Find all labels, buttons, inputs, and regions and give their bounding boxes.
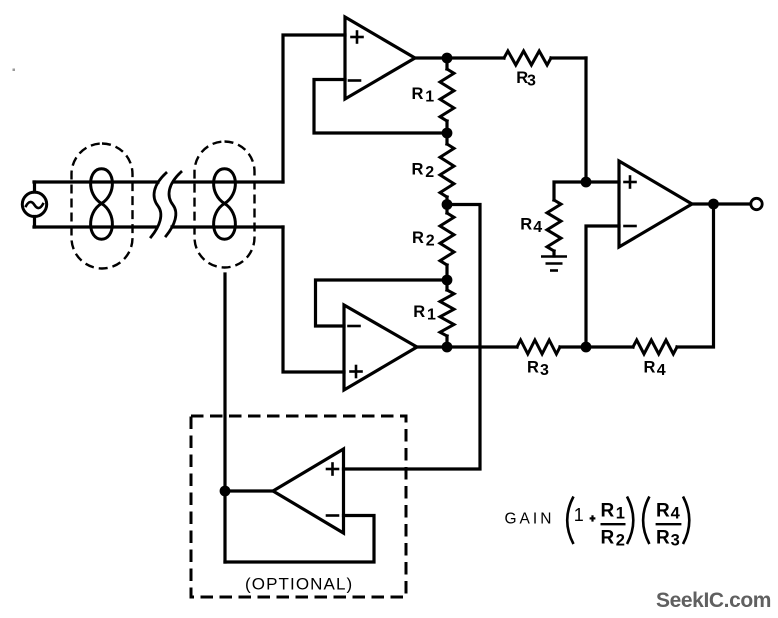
- svg-text:SeekIC.com: SeekIC.com: [656, 589, 771, 612]
- twisted pair loops 1 (figure-8): [91, 169, 113, 239]
- wire top pair left segment: [34, 180, 158, 183]
- svg-text:R: R: [644, 358, 656, 376]
- resistor R3 (top, horizontal): [504, 51, 586, 65]
- svg-text:R: R: [601, 528, 615, 549]
- svg-text:R: R: [656, 501, 670, 522]
- node U1 out: [442, 53, 453, 64]
- svg-text:4: 4: [671, 504, 681, 522]
- cable break squiggle left: [151, 173, 166, 237]
- wire riser to U2 + input: [283, 227, 344, 372]
- ground: [541, 257, 567, 271]
- svg-text:R: R: [412, 229, 424, 247]
- op-amp U1: [345, 17, 415, 99]
- plus sign small: [590, 517, 596, 519]
- scan speck: [13, 69, 16, 72]
- AC source V1: [22, 182, 46, 227]
- resistor R2 (lower, vertical): [440, 205, 454, 281]
- wire bottom pair left segment: [34, 225, 156, 228]
- node R1/R2 upper: [442, 128, 453, 139]
- wire R3 down to U3 + node: [584, 58, 587, 182]
- wire top pair right segment: [174, 180, 283, 183]
- paren 2 close: [683, 497, 689, 545]
- node U3 output: [708, 199, 719, 210]
- wire chain midpoint to buffer riser: [344, 205, 481, 470]
- gain formula: [567, 497, 689, 550]
- wire node to R4: [554, 182, 586, 200]
- svg-text:2: 2: [426, 232, 435, 249]
- wire U3 - input riser: [586, 226, 619, 347]
- paren 2 open: [643, 497, 649, 545]
- wire between R3 and R4 bottom: [560, 345, 633, 348]
- wire U4 feedback: [225, 516, 374, 563]
- resistor R1 (lower, vertical): [440, 280, 454, 347]
- wire U1 feedback: [314, 80, 447, 134]
- paren 1 open: [567, 497, 573, 545]
- svg-text:1: 1: [427, 306, 436, 323]
- svg-text:1: 1: [616, 504, 625, 522]
- wire bottom pair right segment: [172, 225, 283, 228]
- svg-text:2: 2: [425, 164, 434, 181]
- wire U4 output: [225, 489, 273, 492]
- svg-text:4: 4: [657, 362, 666, 379]
- svg-text:R: R: [520, 215, 532, 233]
- svg-text:(OPTIONAL): (OPTIONAL): [245, 575, 353, 594]
- paren 1 close: [627, 497, 633, 545]
- svg-text:R: R: [601, 501, 615, 522]
- resistor R3 (bottom, horizontal): [517, 340, 560, 354]
- twisted pair loops 2 (figure-8): [214, 169, 236, 239]
- svg-text:2: 2: [616, 532, 625, 550]
- cable break squiggle right: [166, 172, 181, 236]
- svg-text:3: 3: [540, 362, 549, 379]
- node dots: [220, 53, 719, 497]
- svg-text:4: 4: [533, 219, 542, 236]
- wire U2 feedback: [316, 280, 448, 326]
- output terminal: [751, 198, 762, 209]
- svg-text:3: 3: [527, 73, 536, 90]
- op-amp U3: [619, 161, 692, 247]
- node chain midpoint: [442, 199, 453, 210]
- svg-text:R: R: [527, 358, 539, 376]
- node U4 output: [220, 486, 231, 497]
- twisted pair shield 1 (dashed stadium): [72, 144, 133, 269]
- svg-text:R: R: [412, 160, 424, 178]
- node U3 + input: [581, 177, 592, 188]
- wire riser to U1 + input: [283, 35, 345, 182]
- twisted pair shield 2 (dashed stadium): [195, 142, 255, 268]
- svg-text:R: R: [412, 85, 424, 103]
- op-amp U4 (optional buffer, points left): [273, 449, 344, 533]
- resistor R2 (upper, vertical): [440, 133, 454, 205]
- wire bottom rail: [415, 345, 517, 348]
- svg-text:R: R: [656, 528, 670, 549]
- wire U1 output to node: [415, 56, 504, 59]
- wire shield to buffer output: [223, 274, 226, 562]
- wire node to U3 + input: [586, 180, 619, 183]
- node U2 out: [442, 342, 453, 353]
- svg-text:1: 1: [425, 88, 434, 105]
- svg-text:GAIN: GAIN: [505, 510, 555, 527]
- svg-text:1: 1: [574, 505, 584, 525]
- resistor R4 (to ground, vertical): [547, 200, 561, 256]
- dashed optional box: [191, 416, 406, 597]
- op-amp U2: [344, 305, 417, 390]
- node R2/R1 lower: [442, 275, 453, 286]
- svg-text:3: 3: [671, 532, 680, 550]
- wire output feedback drop: [677, 204, 714, 347]
- resistor R4 (bottom, horizontal): [633, 340, 677, 354]
- wire U3 output: [692, 202, 751, 205]
- resistor R1 (top, vertical): [440, 58, 454, 133]
- node bottom rail: [581, 342, 592, 353]
- svg-text:R: R: [413, 303, 425, 321]
